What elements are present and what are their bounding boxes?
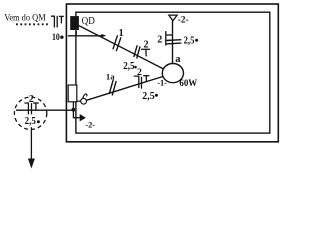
svg-text:2: 2 [144,39,149,50]
wire lamp to wall point [172,21,174,64]
svg-text:QD: QD [82,16,95,27]
wire detail circle down [30,127,32,166]
symbol bar on vertical wire [165,31,167,46]
svg-text:2: 2 [157,35,162,46]
detail symbol bar [24,103,28,114]
wire junction down to circuit 2 arrow [73,110,79,118]
down arrowhead [28,159,35,169]
detail ground T mark [33,103,39,110]
wall entry symbol: bar [51,16,55,27]
switch box in wall [68,85,77,102]
svg-text:1a: 1a [106,72,115,82]
distribution board QD [70,16,79,30]
wire QD to lamp [79,26,164,70]
conductor ticks on vertical wire [166,40,181,44]
connector box to switch [77,100,81,102]
detail conductor tick [31,103,33,114]
svg-text:-1-: -1- [157,79,167,88]
feed arrowhead circuit 1 [101,34,106,37]
conductor ticks group 2 on QD-lamp wire [134,45,140,58]
svg-text:2,5: 2,5 [25,116,36,127]
ground T mark on QD-lamp wire [141,49,150,56]
svg-text:2: 2 [137,67,142,78]
svg-text:2,5: 2,5 [142,91,155,102]
svg-text:-2-: -2- [85,121,95,130]
wall entry symbol: conductor tick [56,16,58,28]
switch lever curl [83,94,87,98]
junction dot on wall [72,108,76,112]
outer wall of room [66,4,278,142]
wire junction to switch box [72,102,74,110]
wire junction to detail circle [16,109,73,111]
switch a [81,98,87,104]
ground T mark on switch wire near lamp [143,76,149,83]
conductor ticks group 1 on QD-lamp wire [113,35,121,51]
svg-text:60W: 60W [179,78,197,89]
svg-text:Vem do QM: Vem do QM [4,12,46,23]
svg-text:10: 10 [52,33,60,43]
svg-text:-2-: -2- [178,15,189,25]
svg-text:1: 1 [119,28,124,39]
inner wall of room [76,12,270,133]
wall lamp point triangle [169,15,177,21]
conductor tick on switch wire near lamp [141,77,143,89]
wall entry symbol: ground T mark [59,16,64,23]
svg-text:2,5: 2,5 [123,61,134,72]
svg-text:2: 2 [29,94,34,105]
wire stem below QD [75,31,77,36]
symbol stem on vertical wire [166,34,173,36]
lamp 60W [162,64,183,83]
symbol bar on switch wire near lamp [134,76,139,88]
svg-text:a: a [175,54,181,65]
wire horizontal feed circuit 1 [68,35,102,37]
wire switch to lamp [86,77,162,101]
svg-text:2,5: 2,5 [184,35,195,46]
arrowhead circuit 2 [80,114,86,121]
dotted feed conduit from QM [16,23,50,25]
detail circle (dashed) [14,97,46,129]
conductor ticks 1a on switch wire [109,80,116,96]
